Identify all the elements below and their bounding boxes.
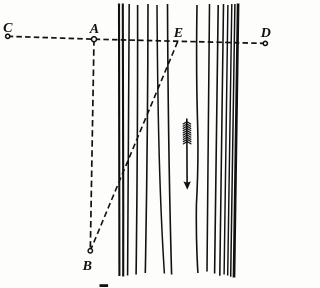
current arrow head — [183, 181, 191, 190]
point D — [263, 41, 267, 45]
river line 12 — [224, 5, 228, 275]
river line 8 — [196, 5, 198, 273]
river line 15 (right bank thick) — [234, 4, 238, 278]
river line 5 — [145, 4, 148, 273]
river line 10 — [215, 5, 219, 274]
river line 1 (left bank thick) — [118, 4, 121, 277]
river line 6 — [157, 5, 164, 274]
point A — [92, 37, 97, 42]
svg-text:C: C — [3, 21, 13, 36]
current arrow shaft — [186, 119, 188, 184]
river line 3 — [128, 4, 130, 276]
svg-text:B: B — [82, 259, 92, 274]
svg-text:A: A — [89, 22, 99, 37]
river line 7 — [168, 4, 172, 275]
dashed line A-B — [90, 39, 94, 251]
river line 4 — [136, 5, 138, 275]
point B — [88, 249, 92, 253]
current arrow feathers — [183, 122, 192, 144]
river line 2 (left bank thick) — [122, 4, 125, 277]
dashed line C-A-D — [8, 36, 266, 43]
river line 11 — [220, 4, 224, 276]
river line 14 — [231, 4, 235, 277]
river line 9 — [207, 4, 210, 272]
caption remnant (cropped figure caption) — [100, 284, 109, 287]
svg-text:E: E — [173, 26, 183, 41]
svg-text:D: D — [260, 26, 271, 41]
dashed line B-E — [90, 42, 177, 251]
point C — [6, 34, 10, 38]
river line 13 — [228, 4, 232, 276]
